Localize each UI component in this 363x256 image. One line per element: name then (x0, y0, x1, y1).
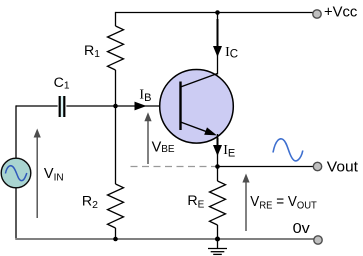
svg-text:IC: IC (225, 45, 238, 61)
svg-text:R2: R2 (82, 193, 98, 211)
source VIN (1, 158, 31, 188)
svg-text:Vout: Vout (327, 160, 358, 176)
wire top rail (116, 12, 315, 14)
ground (208, 239, 227, 254)
terminal 0v (314, 236, 322, 244)
wire RE bottom lead (217, 225, 219, 239)
svg-text:C1: C1 (54, 75, 70, 92)
node emitter junction (215, 164, 220, 169)
wire R2 top lead (115, 106, 117, 184)
node collector top junction (215, 10, 220, 15)
arrow current IE (213, 138, 222, 157)
wire collector vertical (217, 12, 219, 75)
node base junction (113, 104, 118, 109)
arrow current IC (213, 19, 222, 57)
wire emitter node to Vout (218, 166, 314, 168)
arrow current IB (135, 102, 147, 111)
svg-text:VIN: VIN (44, 166, 64, 183)
svg-text:R1: R1 (84, 43, 100, 60)
transistor Q1 emitter arrowhead (204, 127, 217, 135)
resistor R2 (108, 184, 124, 228)
wire VIN bottom lead (15, 188, 17, 240)
dashed reference line (131, 166, 218, 168)
terminal Vout (313, 162, 321, 170)
wire base horizontal left of C1 (16, 105, 58, 107)
capacitor C1 (60, 96, 65, 117)
wire bottom rail (15, 238, 314, 240)
svg-text:RE: RE (187, 193, 204, 210)
transistor Q1 base bar (179, 82, 181, 131)
node R2 bottom junction (113, 237, 118, 242)
sine wave Vout (273, 139, 303, 161)
svg-text:VRE = VOUT: VRE = VOUT (250, 194, 317, 212)
wire R2 bottom lead (115, 228, 117, 239)
resistor RE (210, 181, 226, 225)
transistor Q1 collector diagonal (181, 74, 218, 88)
wire R1 top lead (115, 12, 117, 26)
terminal +Vcc (313, 10, 321, 18)
transistor Q1 emitter diagonal (181, 122, 213, 134)
wire base horizontal right of C1 (66, 105, 181, 107)
arrow voltage VIN (34, 129, 41, 219)
wire VIN top lead (15, 105, 17, 158)
resistor R1 (108, 26, 124, 70)
svg-text:+Vcc: +Vcc (324, 5, 358, 21)
svg-text:0v: 0v (293, 221, 311, 237)
wire emitter vertical (217, 134, 219, 167)
arrow voltage VBE (144, 112, 151, 164)
wire RE top lead (217, 167, 219, 182)
svg-text:IE: IE (223, 143, 235, 159)
svg-text:IB: IB (139, 87, 151, 104)
svg-text:VBE: VBE (152, 139, 175, 155)
arrow voltage VRE (242, 174, 249, 232)
node ground junction (215, 237, 220, 242)
transistor Q1 body (160, 70, 234, 144)
wire R1 bottom lead (115, 70, 117, 106)
